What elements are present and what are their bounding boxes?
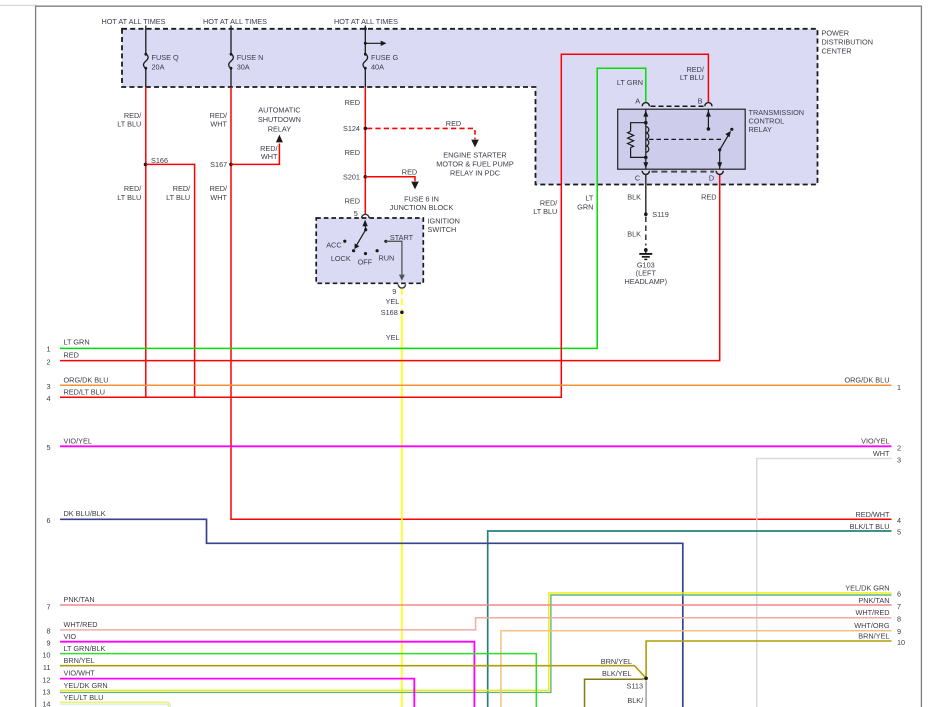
svg-text:MOTOR & FUEL PUMP: MOTOR & FUEL PUMP (436, 160, 514, 169)
svg-text:30A: 30A (237, 63, 250, 72)
ignition switch box (316, 218, 423, 283)
node S168 (400, 311, 404, 315)
svg-text:RED: RED (345, 98, 360, 107)
svg-text:3: 3 (46, 382, 50, 391)
relay coil arrows and nodes (643, 110, 648, 116)
svg-text:START: START (390, 233, 414, 242)
wire RED dashed from S124 to engine starter relay (367, 127, 475, 129)
svg-text:WHT: WHT (873, 449, 890, 458)
svg-text:BRN/YEL: BRN/YEL (601, 657, 632, 666)
svg-text:LT BLU: LT BLU (680, 73, 704, 82)
wire RED/LT BLU from fuse Q down to row 4 (145, 87, 147, 397)
svg-text:7: 7 (897, 602, 901, 611)
ground G103 (644, 248, 648, 252)
svg-text:S113: S113 (627, 681, 644, 690)
node S124 (364, 127, 368, 131)
svg-text:A: A (635, 96, 640, 105)
wire BLK from pin C (645, 175, 647, 214)
power distribution center box (122, 29, 873, 185)
svg-text:WHT/RED: WHT/RED (64, 620, 98, 629)
svg-text:13: 13 (42, 688, 50, 697)
wire RED/WHT branch from S167 to automatic shutdown relay (231, 144, 279, 165)
svg-text:HEADLAMP): HEADLAMP) (625, 277, 668, 286)
node RUN (376, 249, 379, 252)
svg-text:LT BLU: LT BLU (117, 193, 141, 202)
svg-text:20A: 20A (152, 63, 165, 72)
fuse N 30A (229, 29, 234, 87)
node OFF (364, 252, 367, 255)
svg-text:POWER: POWER (822, 29, 850, 38)
node S113 (644, 677, 648, 681)
svg-text:YEL/DK GRN: YEL/DK GRN (845, 583, 889, 592)
dashed connector line A-B (651, 105, 705, 107)
connector bump pin 9 (398, 284, 405, 288)
wire VIO/YEL row 5 across page (60, 445, 892, 447)
svg-text:S167: S167 (210, 160, 227, 169)
wire RED/LT BLU branch from S166 (146, 164, 195, 397)
svg-text:WHT/ORG: WHT/ORG (854, 621, 890, 630)
svg-text:CENTER: CENTER (822, 47, 852, 56)
svg-text:BLK/: BLK/ (627, 696, 644, 705)
svg-text:WHT: WHT (210, 193, 227, 202)
svg-text:VIO/WHT: VIO/WHT (64, 669, 96, 678)
svg-text:RELAY: RELAY (749, 125, 773, 134)
svg-text:WHT: WHT (210, 120, 227, 129)
svg-text:BLK/YEL: BLK/YEL (602, 669, 632, 678)
wire LT GRN/BLK from connector 10 left down off page (60, 654, 536, 707)
wire RED/WHT from fuse N down and right to connector 4 right (231, 87, 892, 519)
svg-text:OFF: OFF (358, 257, 373, 266)
wire BRN/YEL from connector 11 left to node S113 (60, 666, 646, 679)
svg-text:11: 11 (43, 663, 51, 672)
relay actuation dashed line (649, 138, 721, 140)
wire YEL/LT BLU yellow part connector 14 left (60, 702, 168, 707)
svg-text:D: D (709, 173, 714, 182)
svg-text:VIO: VIO (64, 632, 77, 641)
wire YEL/DK GRN dark green part (60, 595, 892, 692)
node fuse G arrow branch (364, 42, 367, 45)
svg-text:YEL/LT BLU: YEL/LT BLU (64, 693, 104, 702)
page frame left border (35, 6, 37, 707)
svg-text:5: 5 (897, 528, 901, 537)
svg-text:5: 5 (354, 209, 358, 218)
svg-text:1: 1 (897, 383, 901, 392)
wire stub into PDC 1 (145, 26, 147, 30)
svg-text:FUSE Q: FUSE Q (152, 53, 179, 62)
wire stub into PDC 3 (364, 26, 366, 30)
svg-text:B: B (698, 96, 703, 105)
svg-text:VIO/YEL: VIO/YEL (64, 437, 92, 446)
svg-text:LT BLU: LT BLU (117, 120, 141, 129)
svg-text:S201: S201 (343, 173, 360, 182)
page frame top border (35, 5, 922, 7)
wire WHT/RED from connector 8 left to connector 8 right (60, 618, 892, 630)
svg-text:BLK: BLK (627, 229, 641, 238)
node S166 (144, 163, 148, 167)
svg-text:YEL/DK GRN: YEL/DK GRN (64, 681, 108, 690)
wire BLK dashed to ground (645, 217, 647, 246)
svg-text:ACC: ACC (326, 240, 341, 249)
node ACC (343, 240, 346, 243)
wire stub into PDC 2 (230, 26, 232, 30)
svg-text:SHUTDOWN: SHUTDOWN (258, 115, 301, 124)
svg-text:9: 9 (392, 287, 396, 296)
svg-text:WHT/RED: WHT/RED (855, 608, 889, 617)
wire RED from connector 2 to relay pin D (60, 175, 720, 361)
wire BRN/YEL from S113 up to connector 10 right (646, 641, 891, 678)
svg-text:6: 6 (897, 590, 901, 599)
relay coil branch from pin A (628, 109, 649, 169)
svg-text:LT BLU: LT BLU (533, 207, 557, 216)
node S201 (364, 175, 368, 179)
svg-text:ENGINE STARTER: ENGINE STARTER (443, 151, 506, 160)
svg-text:2: 2 (897, 443, 901, 452)
svg-text:VIO/YEL: VIO/YEL (861, 437, 889, 446)
svg-text:S119: S119 (652, 210, 669, 219)
svg-text:SWITCH: SWITCH (428, 225, 457, 234)
wire WHT/ORG to connector 9 right (501, 631, 892, 707)
svg-text:RED/: RED/ (173, 184, 191, 193)
node S119 (644, 212, 648, 216)
svg-text:ORG/DK BLU: ORG/DK BLU (64, 376, 109, 385)
svg-text:HOT AT ALL TIMES: HOT AT ALL TIMES (203, 17, 267, 26)
connector bump pin A (642, 103, 649, 107)
wire RED from fuse G down to ignition switch (364, 87, 366, 215)
wire BLK below S113 off page (645, 680, 647, 707)
svg-text:RED/WHT: RED/WHT (855, 510, 890, 519)
wire LT GRN from connector 1 up into PDC to relay pin A (60, 68, 646, 348)
svg-text:RED: RED (446, 119, 461, 128)
svg-text:HOT AT ALL TIMES: HOT AT ALL TIMES (334, 17, 398, 26)
svg-text:14: 14 (42, 700, 50, 707)
svg-text:4: 4 (46, 394, 50, 403)
svg-text:1: 1 (46, 344, 50, 353)
svg-text:C: C (635, 173, 640, 182)
node at fuse G top on PDC edge (364, 27, 367, 30)
svg-text:JUNCTION BLOCK: JUNCTION BLOCK (390, 203, 454, 212)
svg-text:PNK/TAN: PNK/TAN (64, 595, 95, 604)
wire BLK/LT BLU to connector 5 right (488, 531, 892, 707)
relay fixed contact from pin B (707, 109, 709, 129)
wire DK BLU/BLK from connector 6 left down right off page (60, 519, 683, 707)
fuse Q 20A (144, 29, 149, 87)
svg-text:BLK: BLK (627, 193, 641, 202)
page frame right border (920, 6, 922, 707)
wire YEL from S168 down off page (401, 314, 403, 707)
svg-text:8: 8 (46, 627, 50, 636)
svg-text:LOCK: LOCK (331, 254, 351, 263)
connector bump pin B (705, 103, 712, 107)
wire BLK/YEL from bottom to node S113 (585, 678, 647, 707)
wire START to pin 9 (386, 241, 402, 275)
wire RED branch from S201 to fuse 6 (365, 177, 415, 182)
svg-text:RED: RED (64, 351, 79, 360)
svg-text:RUN: RUN (379, 253, 395, 262)
wire VIO from connector 9 left down off page (60, 642, 474, 707)
svg-text:4: 4 (897, 516, 901, 525)
wire YEL dashed below pin 9 (401, 289, 403, 311)
svg-text:3: 3 (897, 455, 901, 464)
page frame top-left light line (0, 4, 36, 6)
svg-text:RED: RED (345, 197, 360, 206)
svg-text:LT BLU: LT BLU (166, 193, 190, 202)
svg-text:RED: RED (345, 148, 360, 157)
svg-text:12: 12 (42, 676, 50, 685)
svg-text:BRN/YEL: BRN/YEL (858, 632, 889, 641)
svg-text:9: 9 (46, 638, 50, 647)
svg-text:DK BLU/BLK: DK BLU/BLK (64, 509, 106, 518)
arrow branch from fuse G feed (365, 42, 381, 44)
svg-text:ORG/DK BLU: ORG/DK BLU (844, 376, 889, 385)
svg-text:YEL: YEL (386, 297, 400, 306)
svg-text:40A: 40A (371, 63, 384, 72)
wire PNK/TAN row 7 across page (60, 604, 892, 606)
connector bump pin D (716, 171, 723, 175)
svg-text:HOT AT ALL TIMES: HOT AT ALL TIMES (101, 17, 165, 26)
svg-text:LT GRN: LT GRN (64, 337, 90, 346)
svg-text:RED/: RED/ (210, 184, 228, 193)
svg-text:BRN/YEL: BRN/YEL (64, 656, 95, 665)
svg-text:FUSE G: FUSE G (371, 53, 398, 62)
svg-text:S124: S124 (343, 124, 360, 133)
svg-text:FUSE N: FUSE N (237, 53, 264, 62)
node S167 (229, 163, 233, 167)
svg-text:10: 10 (42, 651, 50, 660)
svg-text:RED/: RED/ (124, 184, 142, 193)
ignition switch arm (364, 228, 367, 231)
svg-text:RELAY: RELAY (268, 125, 292, 134)
relay switch arm (718, 148, 721, 151)
wire RED/LT BLU from connector 4 up over to relay pin B (60, 54, 708, 397)
svg-text:RELAY IN PDC: RELAY IN PDC (450, 169, 500, 178)
svg-text:LT GRN: LT GRN (617, 78, 643, 87)
wire YEL/LT BLU light blue part (60, 704, 170, 707)
connector bump pin C (642, 171, 649, 175)
wire ORG/DK BLU row 3 across page (60, 384, 892, 386)
node LOCK (352, 249, 355, 252)
svg-text:S168: S168 (381, 308, 398, 317)
svg-text:RED: RED (701, 193, 716, 202)
relay switch line to pin D (719, 150, 721, 169)
wire YEL/DK GRN yellow part connector 13 left to connector 6 right (60, 593, 892, 690)
svg-text:YEL: YEL (386, 333, 400, 342)
svg-text:DISTRIBUTION: DISTRIBUTION (822, 38, 873, 47)
svg-text:RED: RED (402, 167, 417, 176)
svg-text:BLK/LT BLU: BLK/LT BLU (850, 522, 890, 531)
svg-text:10: 10 (897, 638, 905, 647)
svg-text:GRN: GRN (577, 202, 593, 211)
dashed connector line C-D (652, 171, 715, 173)
fuse G 40A (363, 29, 368, 87)
connector bump pin 5 (362, 214, 369, 218)
ignition feed arrow up (362, 220, 367, 227)
svg-text:AUTOMATIC: AUTOMATIC (258, 106, 300, 115)
svg-text:PNK/TAN: PNK/TAN (858, 596, 889, 605)
svg-text:LT: LT (585, 193, 594, 202)
svg-text:RED/LT BLU: RED/LT BLU (64, 388, 106, 397)
svg-text:LT GRN/BLK: LT GRN/BLK (64, 644, 106, 653)
svg-text:WHT: WHT (261, 152, 278, 161)
svg-text:7: 7 (46, 602, 50, 611)
wire WHT to connector 3 right (757, 459, 892, 707)
wire VIO/WHT from connector 12 left down off page (60, 679, 414, 707)
svg-text:2: 2 (46, 357, 50, 366)
svg-text:6: 6 (46, 516, 50, 525)
svg-text:9: 9 (897, 627, 901, 636)
svg-text:8: 8 (897, 615, 901, 624)
svg-text:5: 5 (46, 443, 50, 452)
transmission control relay box (618, 109, 746, 169)
node START (384, 240, 387, 243)
